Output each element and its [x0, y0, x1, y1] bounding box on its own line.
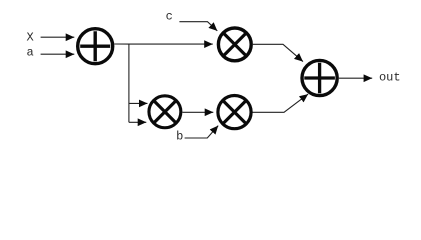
svg-text:X: X: [26, 31, 33, 45]
svg-text:b: b: [176, 129, 183, 143]
svg-text:c: c: [166, 9, 173, 23]
svg-text:a: a: [26, 46, 33, 60]
svg-text:out: out: [379, 71, 401, 85]
